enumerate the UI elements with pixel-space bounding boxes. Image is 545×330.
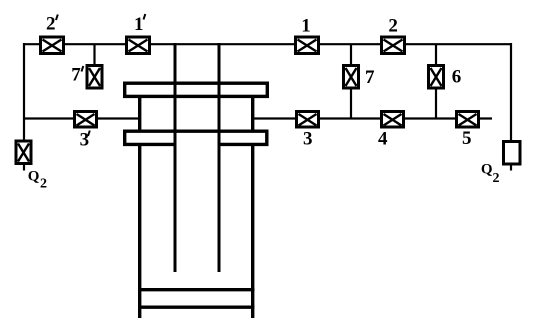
svg-text:7: 7 <box>71 65 81 86</box>
svg-text:6: 6 <box>452 67 462 88</box>
label 5 <box>462 128 472 149</box>
svg-text:Q: Q <box>28 169 40 185</box>
inner tube right <box>218 43 221 272</box>
valve 1 <box>296 37 319 54</box>
svg-text:2: 2 <box>388 16 398 37</box>
label Q2 right <box>481 162 500 187</box>
svg-text:3: 3 <box>303 129 313 150</box>
label 7 <box>365 67 375 88</box>
valve 5 <box>457 112 479 128</box>
vessel Q2 right <box>504 142 521 165</box>
wire stub above valve 6 <box>435 44 437 65</box>
svg-text:2: 2 <box>40 177 47 192</box>
wire top manifold <box>23 43 512 45</box>
wire left riser <box>23 43 25 140</box>
column left wall <box>138 95 141 318</box>
svg-text:1: 1 <box>301 16 311 37</box>
valve 7' <box>87 66 102 89</box>
wire stub below valve 6 <box>435 89 437 119</box>
wire stub below right Q2 vessel <box>510 165 512 171</box>
label 2 <box>388 16 398 37</box>
label 3' <box>80 130 90 151</box>
svg-text:2: 2 <box>493 171 500 186</box>
svg-text:Q: Q <box>481 162 493 178</box>
wire middle-left branch <box>23 117 138 119</box>
label 6 <box>452 67 462 88</box>
label 7' <box>71 65 83 86</box>
svg-text:4: 4 <box>378 129 388 150</box>
label 4 <box>378 129 388 150</box>
valve Q2 left <box>16 141 31 164</box>
column right wall <box>251 95 254 318</box>
svg-text:1: 1 <box>134 14 144 35</box>
label 3 <box>303 129 313 150</box>
valve 3' <box>75 112 97 128</box>
column bottom plate upper <box>138 288 254 291</box>
svg-text:3: 3 <box>80 130 90 151</box>
valve 2' <box>41 37 64 54</box>
label Q2 left <box>28 169 47 192</box>
top flange <box>125 83 268 96</box>
valve 7 <box>344 66 359 89</box>
svg-text:7: 7 <box>365 67 375 88</box>
column bottom plate lower <box>138 306 254 309</box>
valve 3 <box>297 112 319 128</box>
label 1 <box>301 16 311 37</box>
bottom flange <box>123 130 269 147</box>
label 1' <box>134 14 145 35</box>
label 2' <box>46 14 58 35</box>
wire stub above valve 7 <box>350 44 352 65</box>
wire right riser <box>510 43 512 140</box>
svg-text:5: 5 <box>462 128 472 149</box>
svg-text:2: 2 <box>46 14 56 35</box>
valve 6 <box>429 66 444 89</box>
valve 4 <box>382 112 404 128</box>
valve 1' <box>127 37 150 54</box>
valve 2 <box>382 37 405 54</box>
wire stub above valve 7' <box>93 44 95 65</box>
wire middle-right branch <box>254 117 492 119</box>
wire stub below left Q2 valve <box>23 165 25 171</box>
inner tube left <box>174 43 177 272</box>
wire stub below valve 7 <box>350 89 352 119</box>
